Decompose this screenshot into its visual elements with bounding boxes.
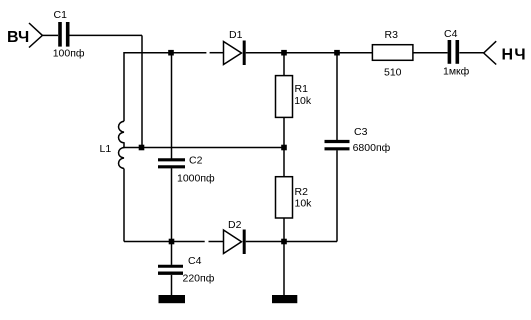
node junction R1/R2/tap bbox=[281, 145, 287, 151]
resistor R2 bbox=[276, 148, 293, 242]
node junction R1 top bbox=[281, 50, 287, 56]
ground right bbox=[272, 295, 297, 303]
svg-text:C2: C2 bbox=[189, 155, 203, 167]
svg-text:C1: C1 bbox=[54, 9, 68, 21]
svg-text:C3: C3 bbox=[354, 126, 368, 138]
wire top rail segment to D1 bbox=[210, 52, 224, 54]
wire C1 to corner bbox=[70, 34, 143, 36]
wire top rail left segment bbox=[124, 53, 206, 122]
svg-text:6800пф: 6800пф bbox=[353, 142, 391, 154]
svg-text:C4: C4 bbox=[444, 28, 458, 40]
wire input to C1 bbox=[42, 34, 58, 36]
wire C4 to ground bbox=[171, 275, 173, 295]
svg-text:510: 510 bbox=[384, 67, 402, 79]
wire bottom rail segment to D2 bbox=[209, 241, 224, 243]
wire C4 to output bbox=[459, 52, 483, 54]
svg-text:100пф: 100пф bbox=[53, 48, 85, 60]
svg-text:220пф: 220пф bbox=[183, 273, 215, 285]
wire D1 cathode to R3 bbox=[246, 52, 373, 54]
svg-text:ВЧ: ВЧ bbox=[7, 29, 29, 46]
inductor L1 bbox=[119, 121, 124, 168]
wire C2 bottom to rail bbox=[171, 168, 173, 241]
wire rail to C4 bottom bbox=[171, 242, 173, 265]
svg-text:R1: R1 bbox=[295, 83, 309, 95]
svg-text:R2: R2 bbox=[295, 186, 309, 198]
svg-text:10k: 10k bbox=[295, 198, 313, 210]
input connector bbox=[29, 23, 42, 48]
resistor R1 bbox=[276, 53, 293, 148]
wire R3 to C4 bbox=[413, 52, 448, 54]
node junction C1/tap bbox=[139, 145, 145, 151]
ground left bbox=[159, 295, 186, 303]
node junction R2 bottom bbox=[281, 239, 287, 245]
svg-text:1000пф: 1000пф bbox=[177, 173, 215, 185]
capacitor C3 bbox=[325, 53, 350, 242]
svg-text:D2: D2 bbox=[228, 219, 242, 231]
svg-text:R3: R3 bbox=[385, 29, 399, 41]
wire L1 tap line bbox=[123, 147, 284, 149]
wire bottom rail left segment bbox=[124, 241, 205, 243]
wire L1 bottom to bottom rail bbox=[123, 169, 125, 242]
node junction C2/C4 bottom bbox=[169, 239, 175, 245]
svg-text:1мкф: 1мкф bbox=[443, 66, 470, 78]
wire vertical from C1 down to L1 tap bbox=[141, 35, 143, 147]
svg-text:10k: 10k bbox=[294, 95, 312, 107]
wire R2 junction to ground bbox=[283, 242, 285, 296]
diode D2 bbox=[224, 230, 245, 255]
capacitor C1 bbox=[60, 22, 68, 47]
svg-text:L1: L1 bbox=[100, 143, 112, 155]
svg-text:D1: D1 bbox=[229, 29, 243, 41]
resistor R3 bbox=[372, 45, 413, 61]
svg-text:НЧ: НЧ bbox=[502, 47, 527, 64]
capacitor C2 bbox=[158, 160, 185, 167]
capacitor C4 output bbox=[449, 40, 457, 64]
wire D2 cathode to C3 bottom bbox=[246, 241, 337, 243]
wire C2 vertical from top rail bbox=[171, 53, 173, 159]
capacitor C4 bottom bbox=[158, 266, 183, 273]
node junction C3 top bbox=[334, 50, 340, 56]
svg-text:C4: C4 bbox=[188, 255, 202, 267]
output connector bbox=[484, 41, 497, 64]
diode D1 bbox=[224, 41, 245, 66]
node junction C2 top bbox=[168, 50, 174, 56]
